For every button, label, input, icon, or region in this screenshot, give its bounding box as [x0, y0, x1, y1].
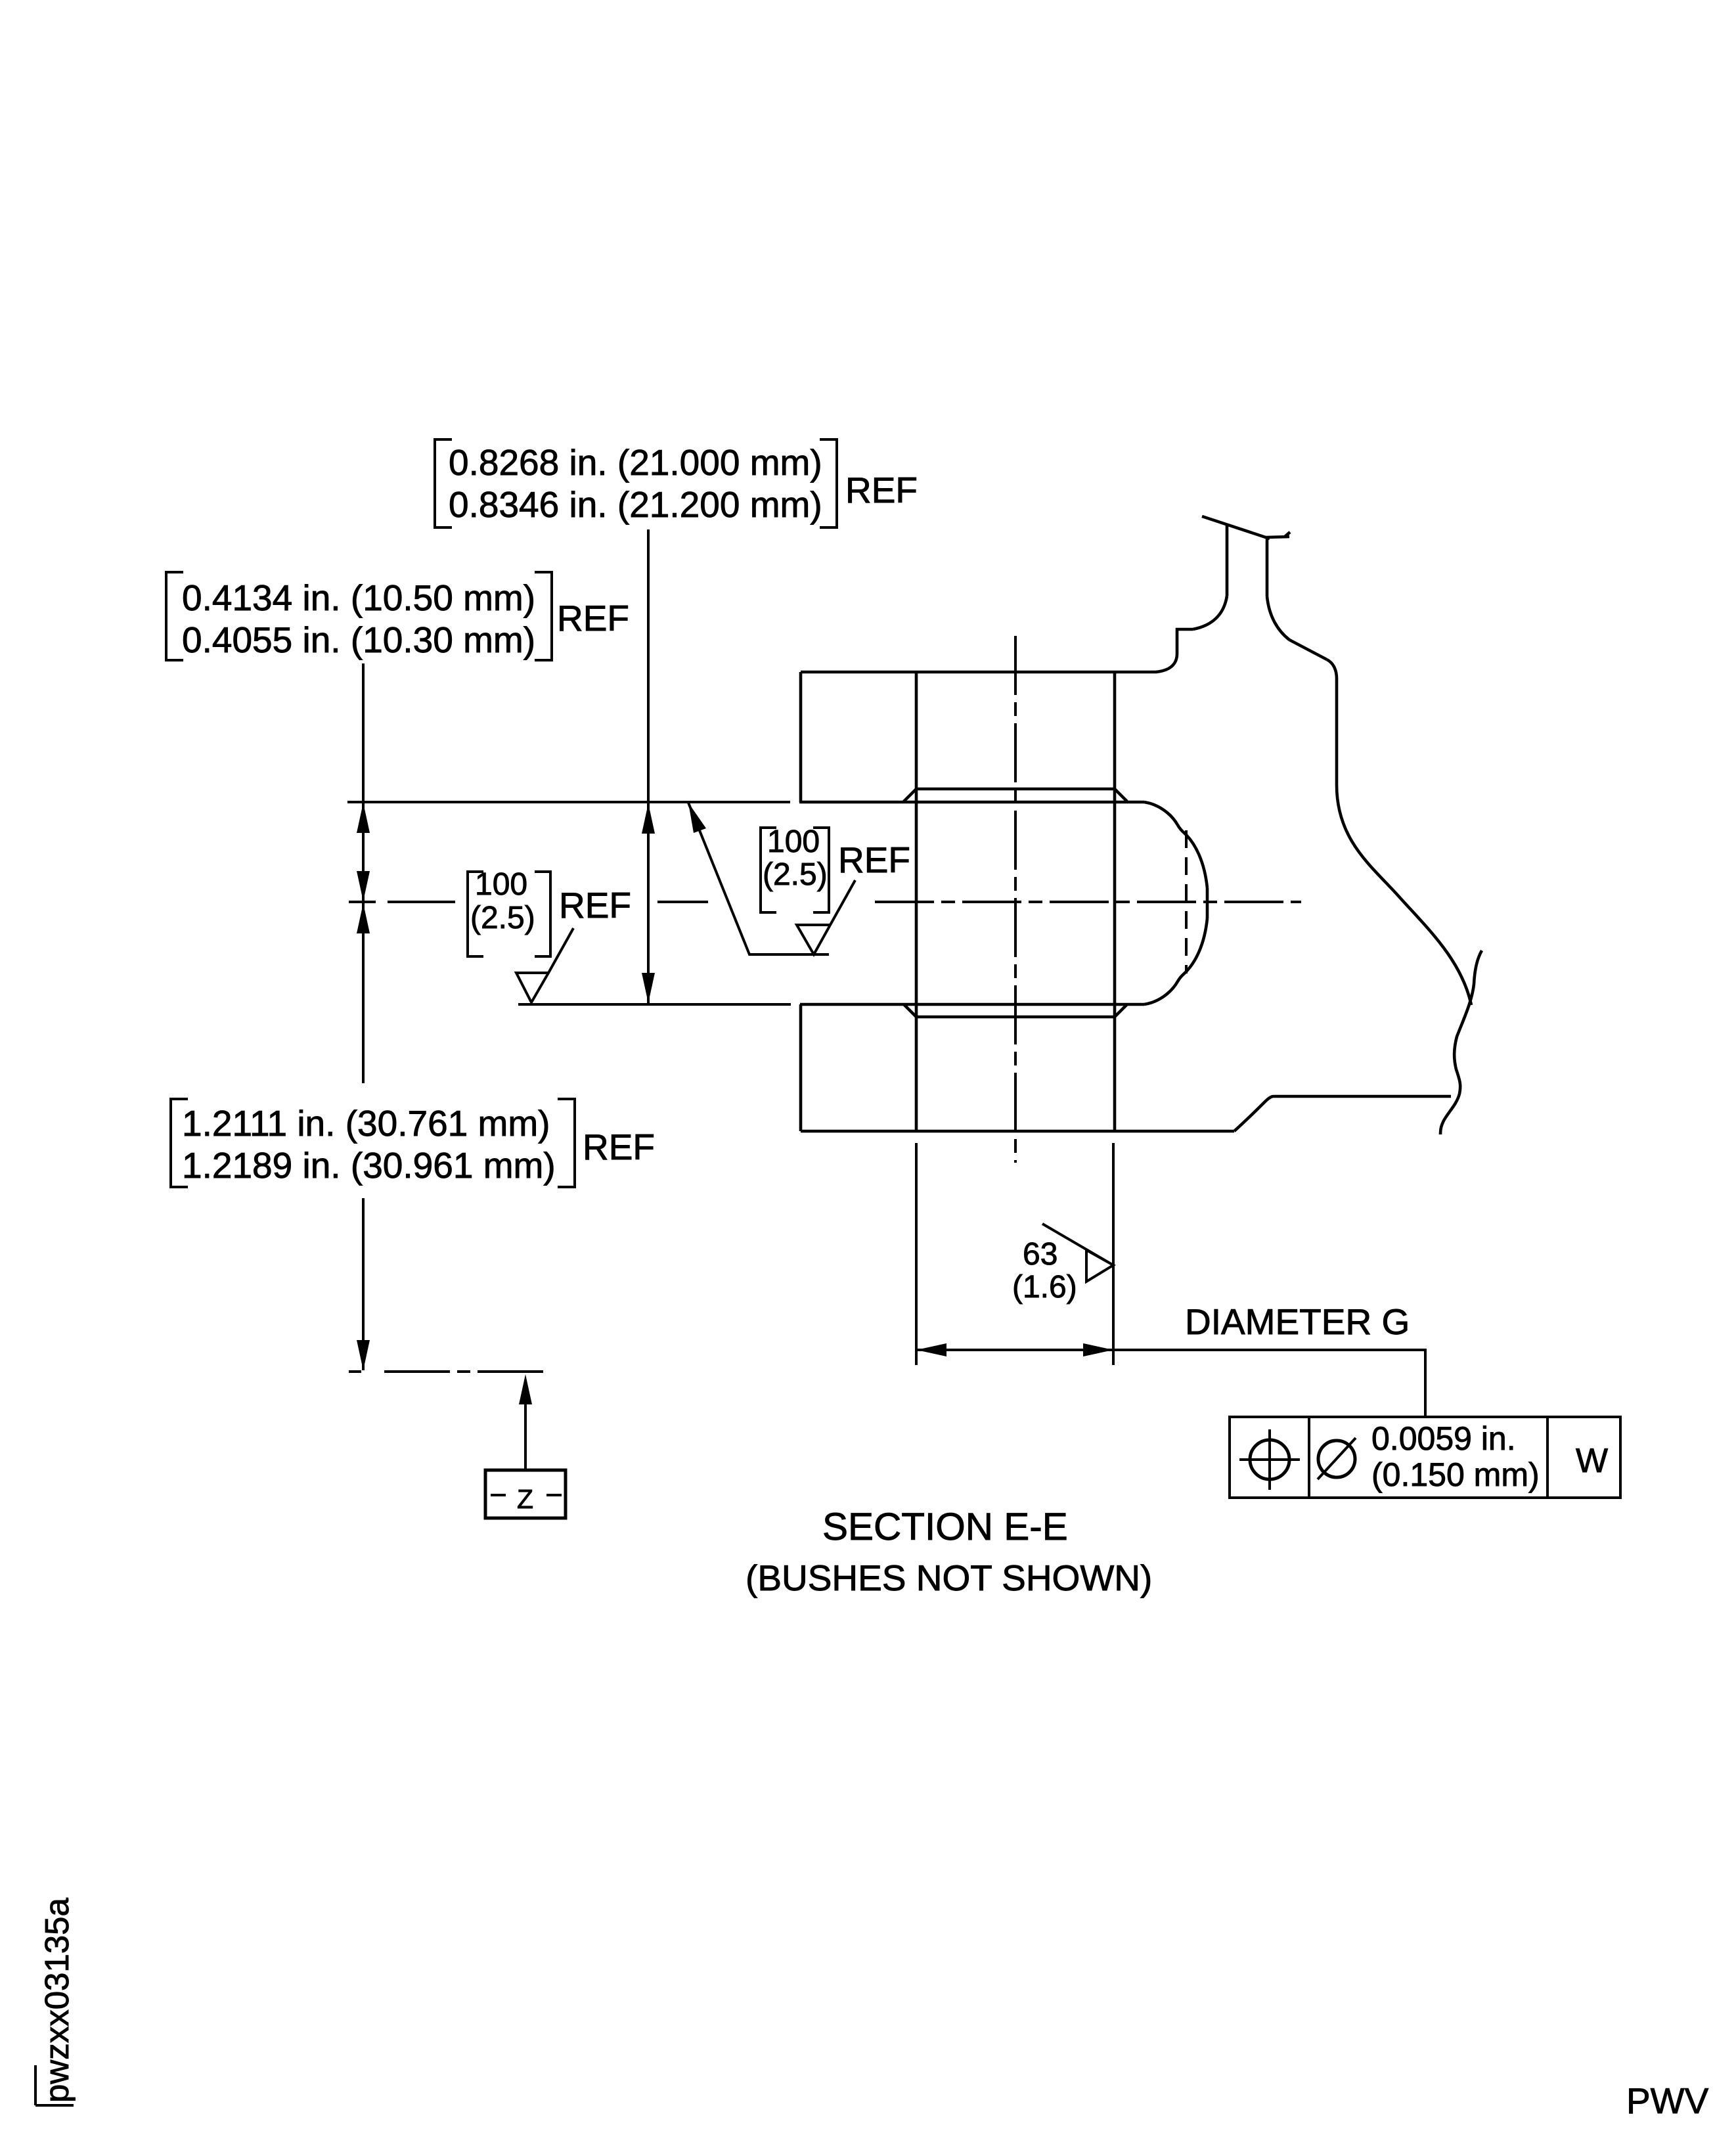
roughness block 4 text: 100 (2.5) REF on centerline: [470, 867, 535, 935]
arrowhead down at datum line: [357, 1340, 370, 1370]
extension line bore right: [1112, 1143, 1115, 1365]
roughness block 5 text: 100 (2.5) REF near leader: [763, 824, 828, 892]
bore right wall: [1113, 672, 1117, 1131]
footer: figure id corner mark: [35, 2065, 74, 2105]
svg-text:(BUSHES NOT SHOWN): (BUSHES NOT SHOWN): [746, 1557, 1152, 1598]
svg-text:0.4055 in. (10.30 mm): 0.4055 in. (10.30 mm): [182, 619, 535, 660]
horizontal centerline left segment: [349, 901, 455, 903]
svg-text:(0.150 mm): (0.150 mm): [1371, 1456, 1540, 1493]
arrowhead left at bore wall: [916, 1343, 946, 1356]
svg-text:1.2189 in. (30.961 mm): 1.2189 in. (30.961 mm): [182, 1145, 556, 1186]
svg-text:1.2111 in. (30.761 mm): 1.2111 in. (30.761 mm): [182, 1103, 550, 1144]
bore left wall: [915, 672, 918, 1131]
part outline: upper slot face on part: [799, 801, 1144, 804]
svg-text:100: 100: [767, 824, 820, 859]
svg-text:W: W: [1576, 1442, 1608, 1480]
horizontal centerline right run: [875, 901, 1301, 903]
part outline: top break edge horizontal with tick: [1266, 532, 1290, 537]
part outline: bottom edge of lower boss: [801, 1130, 1234, 1133]
part outline: step ledge and vertical: [1177, 629, 1193, 654]
svg-text:pwzxx03135a: pwzxx03135a: [38, 1897, 76, 2103]
spherical cap lower curve: [1144, 918, 1207, 1004]
part outline: body right vertical: [1335, 679, 1339, 785]
position symbol: [1250, 1440, 1289, 1479]
svg-text:(2.5): (2.5): [470, 901, 535, 935]
part outline: wavy break line: [1440, 951, 1482, 1134]
part outline: lower boss left edge: [799, 1004, 803, 1131]
part outline: lower slot face line (extended left for dims): [518, 1003, 791, 1006]
block 2 brackets: [166, 572, 552, 660]
datum -Z- label: [491, 1494, 562, 1496]
surface finish symbol 3 rotated on bore extension line: [1042, 1224, 1113, 1282]
diameter symbol: [1318, 1441, 1355, 1477]
svg-text:0.0059 in.: 0.0059 in.: [1371, 1420, 1516, 1457]
DIAMETER G dimension line: [916, 1350, 1425, 1417]
block 1 brackets: [435, 439, 837, 527]
roughness text 63 (1.6): [1012, 1237, 1077, 1305]
part outline: boss top horizontal line: [801, 671, 1157, 674]
block 4 brackets: [468, 872, 550, 956]
bore bottom chamfer diagonals: [904, 1004, 1127, 1017]
part outline: upper boss left edge: [799, 672, 803, 802]
svg-text:REF: REF: [559, 885, 631, 926]
svg-text:0.8268 in. (21.000 mm): 0.8268 in. (21.000 mm): [449, 442, 822, 483]
part outline: chimney right vertical: [1266, 537, 1269, 596]
spherical cap right edge: [1206, 888, 1209, 918]
bore bottom chamfer line: [916, 1016, 1115, 1019]
surface finish symbol 2 on leader: [797, 880, 855, 954]
bore top chamfer diagonals: [904, 789, 1127, 801]
arrowhead up below upper slot face: [642, 803, 655, 834]
hidden dashed line of bore seat: [1185, 830, 1188, 974]
svg-text:REF: REF: [583, 1127, 655, 1167]
svg-text:DIAMETER G: DIAMETER G: [1185, 1301, 1410, 1342]
block 3 brackets: [171, 1099, 575, 1187]
vertical centerline of bore: [1014, 636, 1017, 1163]
part outline: right shoulder slant: [1289, 640, 1327, 660]
arrowhead down at centerline: [357, 871, 370, 901]
dimension text block 3: 1.2111/1.2189 REF: [182, 1103, 655, 1186]
spherical cap upper curve: [1144, 802, 1207, 888]
part outline: chimney left vertical: [1226, 525, 1229, 596]
arrowhead right at bore wall: [1083, 1343, 1113, 1356]
part outline: fillet into right vertical: [1327, 660, 1337, 679]
datum -Z- leader arrow: [524, 1403, 527, 1469]
leader line to upper slot face: [688, 803, 829, 954]
svg-text:REF: REF: [845, 470, 918, 510]
part outline: upper slot face line (extended left for dims): [347, 801, 790, 803]
arrowhead up at slot face: [357, 803, 370, 833]
svg-text:(1.6): (1.6): [1012, 1270, 1077, 1305]
surface finish symbol 1 on lower slot face: [516, 928, 573, 1002]
dim line left vertical (0.4134 and 1.2111 dims): [362, 663, 365, 1370]
feature control frame box: [1230, 1417, 1620, 1498]
extension line bore left: [915, 1143, 918, 1365]
svg-text:REF: REF: [838, 840, 910, 880]
tolerance text: [1371, 1420, 1540, 1493]
dim line 0.8268 vertical: [647, 529, 650, 1003]
horizontal centerline middle segment: [657, 901, 708, 903]
svg-text:PWV: PWV: [1626, 2080, 1709, 2121]
part outline: fillet from bottom to shelf: [1234, 1096, 1274, 1131]
part outline: top break edge slanted line: [1202, 516, 1270, 539]
part outline: fillet from step to boss top: [1156, 654, 1177, 672]
part outline: lower right shelf horizontal: [1274, 1095, 1451, 1098]
svg-text:REF: REF: [557, 598, 629, 638]
arrowhead up below centerline: [357, 903, 370, 933]
svg-text:63: 63: [1023, 1237, 1057, 1272]
dimension text block 2: 0.4134/0.4055 REF: [182, 577, 629, 660]
dimension text block 1: 0.8268/0.8346 REF: [449, 442, 918, 525]
svg-text:SECTION E-E: SECTION E-E: [822, 1506, 1068, 1548]
datum -Z- box: [485, 1470, 566, 1518]
bore top chamfer line: [916, 788, 1115, 791]
leader arrowhead: [688, 803, 706, 833]
part outline: lower slot face on part: [800, 1003, 1144, 1006]
datum target dash-dot line: [349, 1370, 543, 1373]
svg-text:0.8346 in. (21.200 mm): 0.8346 in. (21.200 mm): [449, 484, 822, 525]
arrowhead down at lower slot face: [642, 973, 655, 1003]
part outline: chimney left fillet down to ledge: [1193, 596, 1227, 629]
svg-text:0.4134 in. (10.50 mm): 0.4134 in. (10.50 mm): [182, 577, 535, 618]
svg-text:(2.5): (2.5): [763, 857, 828, 892]
block 5 brackets: [761, 828, 829, 912]
svg-text:Z: Z: [517, 1484, 533, 1514]
part outline: body big sweeping curve: [1337, 785, 1471, 1005]
part outline: chimney right fillet: [1267, 596, 1289, 640]
